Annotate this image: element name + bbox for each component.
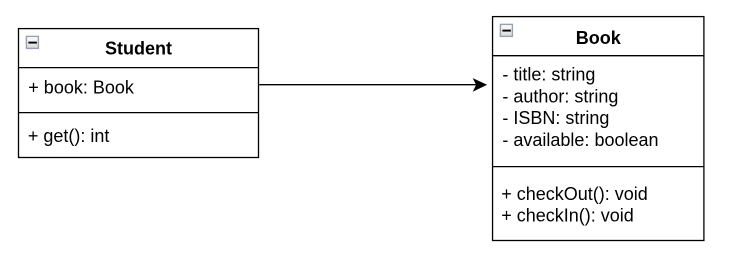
svg-text:- available: boolean: - available: boolean [502,130,658,150]
svg-text:Book: Book [576,28,622,48]
svg-text:+ checkOut(): void: + checkOut(): void [501,184,648,204]
svg-text:Student: Student [105,39,172,59]
svg-text:+ get(): int: + get(): int [28,126,110,146]
svg-text:+ book: Book: + book: Book [28,77,135,97]
svg-text:+ checkIn(): void: + checkIn(): void [501,206,634,226]
svg-text:- author: string: - author: string [502,87,618,107]
svg-text:- title: string: - title: string [502,65,595,85]
svg-text:- ISBN: string: - ISBN: string [502,108,609,128]
